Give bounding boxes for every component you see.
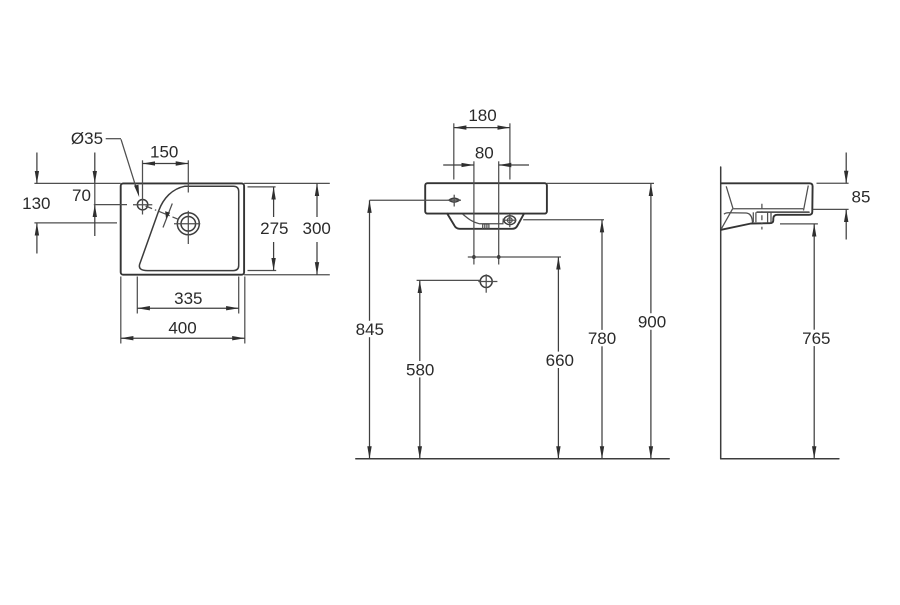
svg-text:300: 300 [303,219,331,238]
svg-text:660: 660 [546,351,574,370]
svg-text:80: 80 [475,143,494,162]
svg-text:900: 900 [638,313,666,332]
svg-text:765: 765 [802,329,830,348]
svg-text:70: 70 [72,186,91,205]
svg-text:400: 400 [168,319,196,338]
svg-text:845: 845 [356,320,384,339]
svg-text:Ø35: Ø35 [71,129,103,148]
svg-text:130: 130 [22,194,50,213]
svg-text:335: 335 [174,289,202,308]
svg-text:275: 275 [260,219,288,238]
svg-text:580: 580 [406,360,434,379]
svg-text:180: 180 [468,106,496,125]
svg-text:780: 780 [588,329,616,348]
svg-text:150: 150 [150,142,178,161]
svg-text:85: 85 [852,188,871,207]
